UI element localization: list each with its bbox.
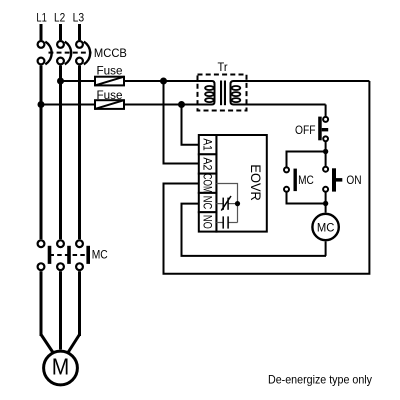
svg-text:ON: ON (346, 173, 361, 187)
svg-text:L3: L3 (73, 11, 85, 25)
svg-text:M: M (52, 354, 70, 380)
svg-text:COM: COM (201, 173, 215, 193)
svg-text:OFF: OFF (295, 123, 316, 137)
svg-text:NO: NO (201, 215, 215, 229)
svg-text:Fuse: Fuse (97, 64, 123, 78)
svg-text:De-energize type only: De-energize type only (268, 372, 372, 386)
svg-text:EOVR: EOVR (248, 164, 263, 201)
svg-text:L1: L1 (36, 11, 47, 25)
svg-text:NC: NC (201, 196, 215, 210)
svg-text:MCCB: MCCB (94, 46, 127, 60)
svg-text:A2: A2 (201, 157, 215, 170)
svg-text:Tr: Tr (218, 60, 228, 74)
svg-text:MC: MC (92, 248, 108, 262)
svg-text:A1: A1 (201, 138, 215, 151)
svg-text:Fuse: Fuse (97, 88, 123, 102)
svg-text:MC: MC (317, 220, 335, 234)
svg-text:L2: L2 (54, 11, 65, 25)
svg-text:MC: MC (298, 173, 314, 187)
